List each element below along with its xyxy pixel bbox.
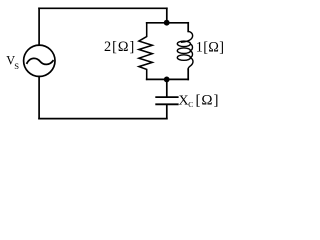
inductor L turn 2 [177,48,190,54]
node B bus wire [147,78,189,80]
inductor L turn 3 [177,55,190,61]
inductor L link 2-3 [190,51,192,58]
wire left upper [38,8,40,45]
svg-text:1[Ω]: 1[Ω] [196,39,225,55]
capacitor lead bottom [166,105,168,118]
node A junction dot [164,20,170,26]
svg-text:2[Ω]: 2[Ω] [104,39,135,55]
node B junction dot [164,77,170,83]
source V_S circle [24,45,55,76]
wire top [39,7,167,9]
node A bus wire [147,22,189,24]
capacitor plate bottom [156,103,178,105]
svg-text:XC[Ω]: XC[Ω] [179,92,220,109]
source V_S sine [27,58,53,64]
inductor L 1ohm lead top [187,23,189,32]
wire left lower [38,76,40,118]
inductor L entry hook [182,31,193,42]
resistor R 2ohm zigzag [139,23,152,80]
inductor L lead bottom [187,69,189,79]
wire bottom [39,118,167,120]
capacitor plate top [156,96,178,98]
svg-text:VS: VS [6,54,19,71]
inductor L exit hook [188,58,193,70]
inductor L link 1-2 [190,44,192,51]
capacitor lead from node B [166,79,168,96]
wire right drop to node A [166,8,168,22]
inductor L turn 1 [177,41,190,47]
